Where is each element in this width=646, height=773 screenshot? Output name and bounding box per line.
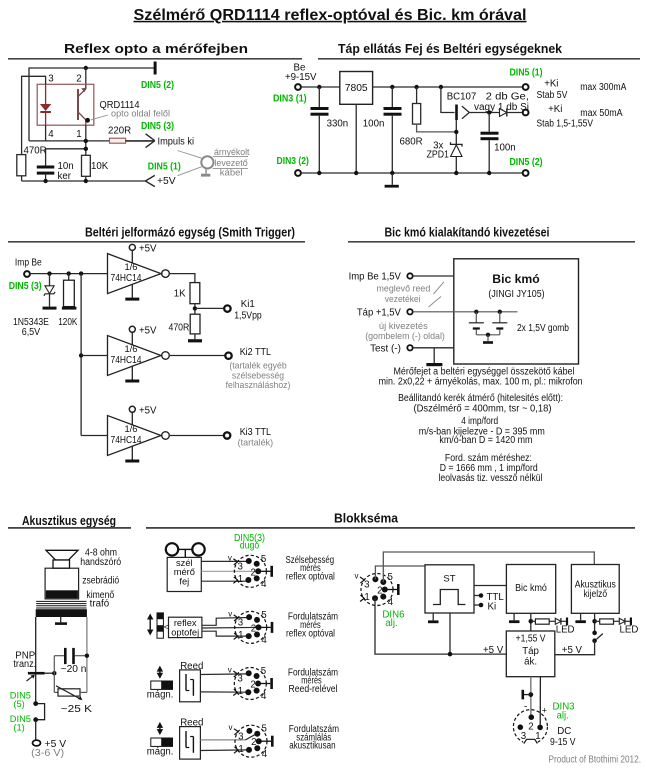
- svg-text:trafó: trafó: [90, 598, 110, 609]
- svg-text:1K: 1K: [174, 288, 186, 299]
- svg-text:km/ó-ban D = 1420 mm: km/ó-ban D = 1420 mm: [439, 435, 532, 446]
- radio black band: [46, 590, 78, 598]
- node: [498, 310, 502, 314]
- Bic ground: [509, 613, 520, 623]
- label árnyékolt levezető kábel: [214, 147, 250, 177]
- svg-text:(gombelem (-) oldal): (gombelem (-) oldal): [365, 331, 445, 341]
- arrow impulse out: [146, 134, 155, 148]
- wire Akusztikus down: [594, 613, 596, 633]
- header rule left: [8, 58, 302, 60]
- node: [47, 271, 51, 275]
- svg-text:alj.: alj.: [557, 711, 569, 722]
- szél mérő fej box: [167, 557, 201, 591]
- wire: inverter chain feed: [80, 274, 82, 436]
- svg-text:(Dszélmérő = 400mm, tsr ~ 0,18: (Dszélmérő = 400mm, tsr ~ 0,18): [414, 403, 552, 414]
- wire row2 c: [202, 631, 249, 636]
- wire pin5 to top rail: [383, 552, 594, 582]
- Ki stub: [474, 603, 483, 608]
- svg-text:+9-15V: +9-15V: [285, 72, 317, 83]
- wire: right winding down: [86, 617, 88, 692]
- updown arrow row3: [157, 666, 163, 679]
- svg-text:9-15 V: 9-15 V: [550, 737, 576, 748]
- svg-text:Ki2 TTL: Ki2 TTL: [240, 347, 272, 358]
- svg-text:handszóró: handszóró: [80, 557, 121, 568]
- svg-text:ZPD1: ZPD1: [427, 150, 449, 161]
- wire row4 c: [200, 749, 249, 752]
- wire: input net: [30, 273, 108, 275]
- LED inside QRD1114: [40, 84, 51, 125]
- terminal Imp Be: [24, 271, 30, 277]
- wire: divider mid: [194, 304, 196, 315]
- svg-text:mágn.: mágn.: [147, 747, 174, 758]
- wire: feedback node: [46, 148, 86, 150]
- connector DIN3: [513, 710, 547, 746]
- svg-text:alj.: alj.: [385, 618, 397, 629]
- connector DIN5 row3: [228, 666, 273, 703]
- connector DIN5 row2: [228, 609, 273, 646]
- wire ST to rail: [449, 613, 451, 654]
- svg-text:reflex optóval: reflex optóval: [286, 628, 335, 639]
- svg-text:Reflex opto a mérőfejben: Reflex opto a mérőfejben: [64, 42, 248, 56]
- svg-text:1,5Vpp: 1,5Vpp: [234, 310, 262, 321]
- svg-text:ST: ST: [443, 574, 455, 585]
- connector DIN5 row4: [229, 723, 274, 760]
- svg-text:reflex optóval: reflex optóval: [286, 572, 335, 583]
- node: [474, 310, 478, 314]
- wire: Ki1 out: [195, 307, 224, 309]
- wire: RC left leg: [53, 656, 55, 693]
- Táp ák. box: [506, 631, 555, 677]
- svg-text:felhasználáshoz): felhasználáshoz): [226, 380, 291, 390]
- header rule: [8, 527, 131, 529]
- wire pin1 to rail: [375, 598, 506, 654]
- op-amp U1A 74HC14: [108, 243, 170, 300]
- svg-text:opto oldal felől: opto oldal felől: [111, 109, 170, 119]
- node: [317, 171, 321, 175]
- arrow +5V in: [145, 175, 154, 186]
- svg-text:(3-6 V): (3-6 V): [31, 748, 64, 759]
- node: [487, 110, 491, 114]
- ground: [188, 334, 202, 343]
- terminal Be: [295, 84, 301, 90]
- transistor BC107: [441, 87, 469, 132]
- wire row3 b: [200, 691, 248, 693]
- node: [84, 139, 88, 143]
- svg-text:Ki1: Ki1: [241, 299, 255, 310]
- node: [79, 271, 83, 275]
- svg-text:Ki3 TTL: Ki3 TTL: [240, 427, 272, 438]
- resistor 220R: [110, 138, 126, 143]
- wire row3 a: [200, 673, 248, 676]
- svg-text:meglevő reed: meglevő reed: [377, 284, 431, 294]
- svg-text:optofej: optofej: [171, 628, 199, 638]
- ST box: [425, 565, 474, 613]
- LED 1 branch: [531, 618, 568, 626]
- wire: +5V bus: [22, 176, 146, 181]
- Bic kmó block: [506, 565, 555, 614]
- capacitor 330n: [311, 87, 329, 173]
- svg-text:Szélmérő QRD1114 reflex-optóva: Szélmérő QRD1114 reflex-optóval és Bic. …: [134, 7, 527, 24]
- wire: 7805 gnd pin: [355, 104, 357, 173]
- Akusztikus kijelző block: [571, 565, 619, 614]
- node: [454, 171, 458, 175]
- speaker driver: [53, 560, 70, 568]
- node: [390, 171, 394, 175]
- diode Ge/Si: [500, 109, 523, 117]
- phototransistor inside QRD1114: [78, 88, 86, 126]
- svg-text:árnyékolt: árnyékolt: [214, 147, 250, 157]
- resistor 680R: [413, 87, 457, 132]
- svg-text:100n: 100n: [363, 119, 385, 130]
- wire: pin4 drop: [45, 125, 47, 141]
- regulator 7805: [340, 72, 373, 105]
- terminal +Ki 5V: [523, 84, 529, 90]
- wire pin3 to ST: [375, 566, 425, 579]
- wire row4 diagonal to pin5: [246, 734, 257, 740]
- header rule: [348, 241, 635, 243]
- resistor 10K: [82, 155, 91, 176]
- svg-text:330n: 330n: [327, 119, 349, 130]
- node: [439, 85, 443, 89]
- updown arrow row4: [157, 722, 163, 735]
- pointer line opto oldal: [91, 115, 108, 120]
- svg-text:2x 1,5V gomb: 2x 1,5V gomb: [517, 323, 569, 334]
- striped wheel bar: [157, 613, 163, 638]
- wire ST to Bic: [474, 585, 506, 587]
- wire: to +5V: [35, 720, 37, 740]
- svg-text:2 db Ge,: 2 db Ge,: [486, 92, 529, 103]
- resistor 470R: [17, 155, 26, 176]
- battery cell 2: [492, 312, 507, 335]
- wire row1 b: [201, 570, 258, 572]
- opto QRD1114 body: [37, 84, 94, 125]
- svg-text:kijelző: kijelző: [584, 589, 608, 600]
- svg-text:zsebrádió: zsebrádió: [82, 576, 119, 587]
- svg-text:100n: 100n: [494, 143, 516, 154]
- terminal bar DIN5(2): [154, 62, 157, 75]
- node: [193, 306, 197, 310]
- Akusztikus ground: [575, 613, 586, 623]
- node: [390, 85, 394, 89]
- svg-text:akusztikusan: akusztikusan: [289, 741, 335, 752]
- jumper bracket: [38, 704, 45, 720]
- updown arrow row2: [147, 614, 153, 636]
- anemometer cups: [166, 543, 205, 557]
- wire row4 a: [200, 739, 245, 741]
- node: [354, 171, 358, 175]
- svg-text:LED: LED: [620, 625, 639, 636]
- node: [529, 619, 534, 624]
- svg-text:+1,55 V: +1,55 V: [516, 633, 546, 644]
- header rule: [8, 241, 305, 243]
- svg-text:(JINGI JY105): (JINGI JY105): [488, 289, 544, 300]
- speaker cone: [46, 550, 78, 560]
- svg-text:7805: 7805: [345, 83, 368, 94]
- magnet row3: [151, 681, 173, 689]
- svg-text:10K: 10K: [91, 161, 109, 172]
- node: [454, 130, 458, 134]
- wire: 5V rail: [373, 86, 523, 88]
- node: [33, 701, 38, 706]
- wire: Ki2 out: [169, 355, 224, 357]
- terminal DIN3 (2): [295, 170, 301, 176]
- wire Táp plus down: [539, 677, 541, 728]
- battery cell 1: [469, 312, 484, 335]
- wire: top rail of opto head: [29, 68, 155, 141]
- transformer laminations: [36, 601, 86, 608]
- svg-text:Imp Be: Imp Be: [15, 257, 42, 268]
- svg-text:DIN5 (3): DIN5 (3): [141, 121, 174, 132]
- node: [85, 654, 89, 658]
- wire: inv2 input: [81, 355, 107, 357]
- svg-text:Stab 1,5-1,55V: Stab 1,5-1,55V: [537, 118, 594, 129]
- svg-text:+5 V: +5 V: [562, 645, 583, 656]
- connector DIN6: [355, 572, 400, 609]
- svg-text:LED: LED: [556, 625, 575, 636]
- wire: bottom bus of opto: [29, 140, 110, 142]
- ST ground: [428, 613, 439, 623]
- LED 2 branch: [595, 618, 632, 626]
- svg-text:1: 1: [535, 731, 540, 742]
- ground: [483, 335, 493, 344]
- resistor 470R: [190, 314, 200, 334]
- pointer slashes: [429, 282, 445, 307]
- svg-text:+5 V: +5 V: [483, 645, 504, 656]
- svg-text:4: 4: [48, 129, 54, 140]
- zener 1N5343E: [43, 274, 57, 310]
- terminal DIN5 (2): [523, 170, 529, 176]
- op-amp U1C 74HC14: [108, 405, 170, 462]
- header rule right: [318, 58, 640, 60]
- svg-text:Bic kmó kialakítandó kivezetés: Bic kmó kialakítandó kivezetései: [385, 226, 550, 240]
- svg-text:+Ki: +Ki: [544, 79, 558, 90]
- wire: inv1 out to divider: [169, 274, 195, 283]
- svg-text:Beltéri jelformázó egység (Sm: Beltéri jelformázó egység (Smith Trigger…: [85, 226, 295, 240]
- capacitor 100n second: [481, 113, 499, 174]
- TTL stub: [474, 593, 483, 598]
- svg-text:Ki: Ki: [488, 602, 497, 613]
- svg-text:Akusztikus egység: Akusztikus egység: [22, 514, 116, 528]
- reed box row4: [180, 727, 201, 760]
- svg-text:DIN5 (1): DIN5 (1): [148, 161, 181, 172]
- svg-text:+5V: +5V: [157, 176, 176, 187]
- svg-text:leolvasás tiz. vessző nélkül: leolvasás tiz. vessző nélkül: [439, 473, 543, 484]
- svg-text:min. 2x0,22 + árnyékolás, max.: min. 2x0,22 + árnyékolás, max. 100 m, pl…: [379, 377, 583, 388]
- reflex optofej box: [169, 617, 202, 637]
- svg-text:120K: 120K: [58, 317, 78, 328]
- wire: pin1 drop: [85, 125, 87, 155]
- svg-text:tranz.: tranz.: [13, 659, 36, 670]
- svg-text:mágn.: mágn.: [147, 689, 174, 700]
- node: [592, 619, 597, 624]
- test point bar: [522, 690, 531, 700]
- node: [487, 171, 491, 175]
- svg-text:Test (-): Test (-): [370, 344, 401, 355]
- svg-text:-: -: [524, 702, 527, 713]
- square wave glyph: [433, 590, 465, 605]
- node: [317, 85, 321, 89]
- ground on test line: [426, 348, 442, 366]
- capacitor ~20n: [54, 648, 87, 664]
- wire Bic to Táp: [530, 613, 532, 631]
- node: [52, 671, 56, 675]
- svg-text:Táp +1,5V: Táp +1,5V: [357, 308, 402, 319]
- terminal Ki2: [225, 353, 231, 359]
- switch: [555, 631, 603, 655]
- node: [84, 179, 88, 183]
- svg-text:Stab 5V: Stab 5V: [537, 90, 568, 101]
- svg-text:DC: DC: [557, 726, 571, 737]
- svg-text:új kivezetés: új kivezetés: [379, 321, 428, 331]
- svg-text:ák.: ák.: [524, 657, 537, 668]
- svg-text:3: 3: [521, 731, 526, 742]
- wire Imp Be: [413, 275, 454, 277]
- node: [67, 271, 71, 275]
- wire: ground rail: [301, 172, 523, 174]
- node: [43, 179, 47, 183]
- svg-text:DIN3 (2): DIN3 (2): [277, 156, 309, 167]
- svg-text:470R: 470R: [24, 146, 47, 157]
- svg-text:3: 3: [48, 74, 53, 85]
- wire row1 a: [201, 560, 249, 562]
- op-amp U1B 74HC14: [108, 325, 170, 382]
- wire row2 a: [202, 618, 249, 626]
- potentiometer ~25 K: [54, 686, 87, 701]
- wire Táp into box: [413, 311, 518, 313]
- resistor 1K: [190, 283, 200, 304]
- svg-text:~20 n: ~20 n: [61, 664, 87, 675]
- svg-text:680R: 680R: [400, 137, 423, 148]
- svg-text:Impuls ki: Impuls ki: [158, 136, 195, 147]
- wire row2 b: [202, 626, 259, 629]
- svg-text:max 300mA: max 300mA: [580, 82, 627, 93]
- svg-text:Imp Be 1,5V: Imp Be 1,5V: [349, 272, 402, 283]
- svg-text:+Ki: +Ki: [548, 104, 562, 115]
- svg-text:470R: 470R: [169, 323, 190, 334]
- wire battery join: [476, 334, 500, 336]
- connector DIN5 row1: [228, 553, 273, 590]
- node: emitter dot marker: [85, 118, 90, 123]
- resistor 120K: [62, 274, 77, 310]
- svg-text:Bic kmó: Bic kmó: [492, 272, 540, 286]
- wire: input rail: [301, 86, 340, 88]
- terminal Táp: [407, 309, 412, 314]
- svg-text:BC107: BC107: [447, 92, 477, 103]
- svg-text:DIN5 (1): DIN5 (1): [510, 67, 543, 78]
- terminal +Ki 1,5V: [523, 110, 529, 116]
- terminal Test: [407, 345, 412, 350]
- svg-text:Táp: Táp: [522, 646, 539, 657]
- terminal Ki3: [224, 432, 230, 438]
- zener stack 3x ZPD1: [451, 132, 463, 173]
- node: [528, 692, 533, 697]
- transformer center tap ground: [55, 617, 67, 625]
- wire: to impulse out: [126, 140, 155, 142]
- svg-text:kábel: kábel: [220, 168, 243, 178]
- terminal Imp Be: [407, 273, 412, 278]
- wire: emitter out: [469, 112, 499, 114]
- reed contacts row4: [186, 731, 193, 753]
- svg-text:(tartalék): (tartalék): [238, 437, 274, 447]
- ground: [385, 173, 399, 188]
- node: [33, 717, 38, 722]
- node: [448, 652, 453, 657]
- svg-text:Product of Btothimi 2012.: Product of Btothimi 2012.: [549, 755, 642, 766]
- reed box row3: [180, 670, 201, 702]
- node: [414, 85, 418, 89]
- shielded cable symbol: [178, 151, 249, 177]
- terminal Ki1: [224, 305, 230, 311]
- svg-text:vezetékei: vezetékei: [385, 294, 421, 304]
- wire Test: [413, 347, 454, 349]
- wire Táp minus down: [530, 677, 532, 718]
- wire: base to RC: [45, 672, 55, 674]
- svg-text:DIN5 (2): DIN5 (2): [510, 157, 543, 168]
- wire: pin2 drop: [85, 68, 87, 89]
- svg-text:Reed-relével: Reed-relével: [289, 684, 338, 695]
- Bic kmó box: [454, 259, 579, 364]
- svg-text:fej: fej: [179, 576, 189, 586]
- svg-text:DIN3 (1): DIN3 (1): [273, 94, 307, 105]
- svg-text:220R: 220R: [108, 126, 131, 137]
- capacitor 100n first: [384, 87, 402, 173]
- header rule: [146, 527, 635, 529]
- capacitor 10n: [37, 149, 55, 181]
- svg-text:6,5V: 6,5V: [22, 327, 41, 338]
- terminal +5V: [33, 740, 41, 746]
- transistor PNP: [27, 672, 45, 704]
- svg-text:reflex: reflex: [174, 618, 197, 628]
- svg-text:DIN5 (3): DIN5 (3): [9, 281, 42, 292]
- wire: left winding down: [35, 617, 37, 672]
- svg-text:dugó: dugó: [240, 541, 260, 552]
- node: [79, 353, 83, 357]
- radio box: [45, 568, 79, 599]
- transformer core bar: [36, 609, 87, 617]
- svg-text:(5): (5): [13, 699, 24, 709]
- svg-text:Blokkséma: Blokkséma: [334, 511, 399, 525]
- node: [84, 147, 88, 151]
- reed contacts row3: [186, 674, 193, 696]
- svg-text:Táp ellátás Fej és Beltéri egy: Táp ellátás Fej és Beltéri egységeknek: [338, 42, 562, 56]
- wire: inv3 input: [81, 435, 107, 437]
- svg-text:(tartalék egyéb: (tartalék egyéb: [229, 360, 286, 370]
- wire row1 c: [201, 580, 248, 582]
- svg-text:2: 2: [76, 74, 81, 85]
- svg-text:DIN5 (2): DIN5 (2): [141, 80, 174, 91]
- wire: Ki3 out: [169, 435, 223, 437]
- svg-text:(1): (1): [13, 723, 24, 733]
- magnet row4: [151, 738, 173, 746]
- svg-text:1: 1: [76, 129, 81, 140]
- svg-text:levezető: levezető: [214, 158, 247, 168]
- svg-text:szélsebesség: szélsebesség: [232, 371, 284, 381]
- wire: pin3 outer loop: [22, 76, 46, 154]
- svg-text:~25 K: ~25 K: [61, 704, 93, 715]
- svg-text:2: 2: [528, 721, 533, 732]
- node: junction pin2 top: [84, 66, 88, 70]
- node: [486, 333, 490, 337]
- svg-text:Bic kmó: Bic kmó: [515, 583, 547, 594]
